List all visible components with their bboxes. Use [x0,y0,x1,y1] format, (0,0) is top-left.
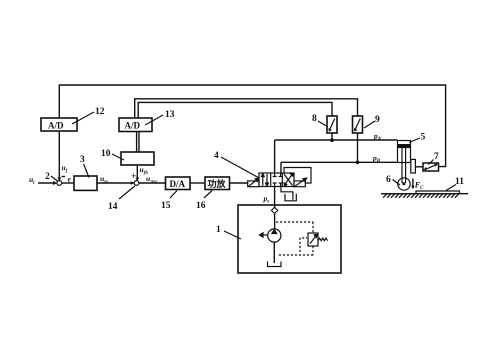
wire u-delta-sv [139,182,166,184]
tank symbol [268,262,282,267]
check valve [271,207,277,213]
svg-text:12: 12 [95,107,105,117]
svg-text:8: 8 [312,114,317,124]
wire check valve to pump [274,214,276,230]
pump outlet to tank [273,242,275,263]
pump [260,229,281,242]
summing junction 2 [57,181,62,186]
svg-text:11: 11 [455,177,464,187]
ground [381,194,468,198]
controller box 3 [74,176,97,190]
valve right cell crossed arrows [284,173,293,186]
svg-text:A/D: A/D [48,121,64,131]
force sensor 7 [423,163,439,171]
valve left solenoid [248,178,259,186]
valve right solenoid [294,178,307,187]
workpiece plate 11 [416,191,460,194]
svg-text:13: 13 [165,110,175,120]
svg-text:+: + [131,172,136,182]
valve left cell arrows [261,174,268,187]
hydraulic line pB [281,161,398,163]
wire valve A port to pA [274,140,276,173]
A/D converter U12 [41,118,77,131]
wire usv [97,182,134,184]
power unit box 1 [238,205,341,273]
svg-text:14: 14 [108,202,118,212]
relief valve pilot dashed lines [276,222,313,255]
wire bracket to force sensor [415,166,423,168]
svg-text:5: 5 [421,133,426,143]
svg-text:1: 1 [216,225,221,235]
wire bus A/D13 to box10 [136,132,138,153]
force Fc arrow [412,179,414,188]
hydraulic line pA [275,139,398,141]
valve T drain and tank [281,187,296,201]
wire pressure sensor 8 to A/D 13 [138,102,332,118]
wire D/A to amp [190,182,205,184]
svg-text:2: 2 [45,172,50,182]
A/D converter U13 [119,118,152,132]
pressure sensor 9 [353,115,381,164]
wire uf feedback vertical [58,131,60,179]
pressure sensor 8 [312,114,337,142]
svg-text:15: 15 [161,201,171,211]
rod bracket [411,159,416,173]
svg-text:6: 6 [386,175,391,185]
wire ufb [136,165,138,179]
wire amp to valve [230,182,248,184]
svg-text:9: 9 [375,115,380,125]
valve centre cell blocked ports [273,173,283,187]
svg-text:16: 16 [196,201,206,211]
servo valve 4 body [259,173,294,187]
wire e [62,182,74,184]
summing junction 14 [134,181,139,186]
wire valve P port to supply [274,187,276,208]
svg-text:4: 4 [214,151,219,161]
roller wheel 6 [398,178,410,190]
svg-text:A/D: A/D [125,121,141,131]
relief valve [308,233,328,246]
wire force-feedback top [59,85,445,167]
pilot loop [284,168,311,184]
compensator box 10 [121,152,154,165]
wire pressure sensor 9 to A/D 13 [135,99,358,118]
svg-text:7: 7 [434,152,439,162]
D/A converter U15 [166,177,191,190]
svg-text:10: 10 [101,149,111,159]
power amplifier 16 [205,177,230,190]
wire valve B port to pB [280,162,282,173]
svg-text:功放: 功放 [208,178,227,189]
svg-text:3: 3 [80,155,85,165]
svg-text:D/A: D/A [170,179,186,189]
cylinder 5 [398,141,411,184]
wire input [38,182,55,184]
